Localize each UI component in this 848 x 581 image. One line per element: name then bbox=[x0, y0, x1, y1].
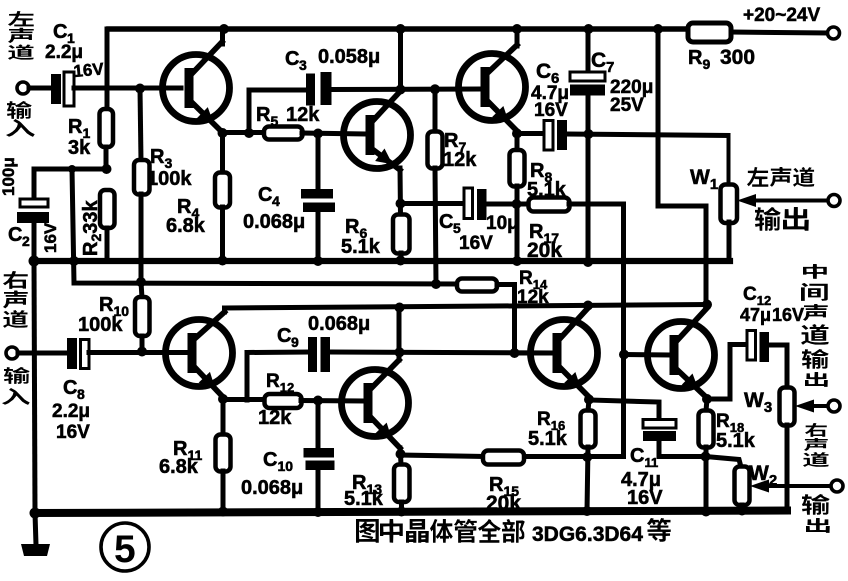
node label: left channel output bbox=[747, 167, 814, 231]
svg-text:8: 8 bbox=[77, 386, 85, 402]
svg-text:16V: 16V bbox=[41, 222, 60, 253]
node label: right channel input (bottom-left) bbox=[2, 271, 30, 405]
ground symbol bbox=[21, 513, 50, 556]
resistor R13 5.1k bbox=[344, 454, 410, 512]
svg-text:0.068μ: 0.068μ bbox=[243, 211, 305, 233]
capacitor C9 0.068u bbox=[247, 313, 553, 400]
svg-text:2.2μ: 2.2μ bbox=[45, 42, 83, 63]
svg-text:0.068μ: 0.068μ bbox=[308, 313, 370, 335]
node Q7 emitter junction bbox=[584, 395, 594, 405]
node left channel output terminal bbox=[828, 195, 840, 207]
resistor R5 12k bbox=[256, 104, 364, 140]
node left channel input terminal bbox=[17, 82, 29, 94]
node label: right channel output bbox=[802, 423, 830, 533]
svg-text:10μ: 10μ bbox=[486, 213, 519, 234]
wire feedback/W2 link bbox=[706, 457, 742, 468]
wire input to C1 bbox=[29, 86, 51, 91]
svg-text:16V: 16V bbox=[534, 100, 568, 121]
svg-text:3: 3 bbox=[299, 57, 307, 73]
resistor R16 5.1k bbox=[528, 400, 596, 512]
node middle output terminal W3 bbox=[828, 400, 840, 412]
figure number 5 bbox=[101, 523, 149, 571]
wire +V feed down to bottom channel rail bbox=[658, 29, 706, 304]
svg-text:0.058μ: 0.058μ bbox=[318, 46, 380, 68]
node Q3 emitter junction bbox=[512, 129, 522, 139]
capacitor C1 2.2u 16V bbox=[45, 21, 105, 106]
svg-text:C: C bbox=[591, 49, 606, 72]
node ground rail (upper) bbox=[29, 256, 731, 268]
svg-text:5: 5 bbox=[114, 528, 136, 571]
svg-text:16V: 16V bbox=[73, 59, 105, 81]
svg-text:6.8k: 6.8k bbox=[159, 456, 199, 478]
wire Q1 emitter to R5 and Q2 base bbox=[223, 128, 265, 138]
capacitor C2 100u 16V bbox=[0, 157, 112, 261]
wire Q2 collector to +V rail bbox=[398, 29, 403, 91]
power terminal +20~24V bbox=[743, 5, 840, 39]
svg-text:R233k: R233k bbox=[80, 200, 104, 256]
svg-text:5.1k: 5.1k bbox=[527, 179, 567, 201]
resistor R12 12k bbox=[223, 371, 363, 429]
svg-text:4: 4 bbox=[272, 193, 280, 209]
svg-text:12k: 12k bbox=[286, 104, 320, 126]
capacitor C3 0.058u (Q1 emitter to Q2 collector) bbox=[249, 46, 480, 133]
wire Q6 collector to rail3 bbox=[397, 308, 402, 360]
svg-text:100k: 100k bbox=[147, 168, 192, 190]
svg-text:2.2μ: 2.2μ bbox=[52, 401, 90, 422]
svg-text:C: C bbox=[258, 184, 272, 206]
transistor Q5 bbox=[166, 308, 233, 397]
node label: left channel input (top-left) bbox=[6, 11, 35, 137]
transistor Q1 bbox=[163, 29, 230, 132]
resistor R2 33k bbox=[80, 190, 115, 261]
potentiometer W2 bbox=[735, 462, 832, 511]
node junction dots on top rail bbox=[219, 24, 663, 34]
svg-text:16V: 16V bbox=[56, 422, 90, 443]
svg-text:5.1k: 5.1k bbox=[344, 488, 384, 510]
svg-text:2: 2 bbox=[22, 233, 30, 249]
capacitor C11 4.7u 16V bbox=[589, 400, 706, 509]
node +V top power rail bbox=[109, 29, 828, 33]
svg-text:C: C bbox=[285, 48, 299, 70]
svg-text:100μ: 100μ bbox=[0, 157, 18, 196]
capacitor C6 4.7u 16V bbox=[517, 60, 728, 150]
node right channel input terminal bbox=[6, 347, 18, 359]
wire C8 to Q5 base bbox=[89, 347, 187, 357]
transistor Q7 bbox=[531, 308, 598, 397]
svg-text:12k: 12k bbox=[258, 407, 292, 429]
resistor R17 20k feedback bbox=[524, 198, 624, 457]
svg-text:16V: 16V bbox=[772, 305, 804, 325]
node Q8 emitter junction bbox=[702, 394, 712, 404]
node ground rail (bottom) bbox=[30, 506, 788, 519]
potentiometer W1 bbox=[690, 136, 828, 262]
wire input to C8 bbox=[18, 351, 67, 356]
transistor Q2 bbox=[344, 91, 411, 170]
capacitor C4 0.068u (Q2 base to gnd) bbox=[243, 134, 335, 262]
wire C1 to Q1 base with junction bbox=[74, 84, 181, 94]
svg-text:C: C bbox=[8, 224, 22, 246]
transistor Q6 bbox=[342, 360, 409, 448]
node Q5 emitter junction bbox=[218, 394, 228, 404]
capacitor C8 2.2u 16V bbox=[52, 338, 90, 443]
svg-text:C: C bbox=[536, 60, 551, 83]
node Q6 emitter junction bbox=[396, 448, 406, 459]
wire bias rail 2 (R3/R10/R14) bbox=[72, 169, 457, 289]
potentiometer W3 bbox=[744, 388, 828, 511]
svg-text:12k: 12k bbox=[443, 149, 477, 171]
capacitor C12 47u 16V bbox=[707, 284, 804, 399]
wire ground drop from upper rail to ground bbox=[34, 261, 35, 513]
svg-text:0.068μ: 0.068μ bbox=[241, 477, 303, 499]
resistor R4 6.8k (Q1 emitter to gnd) bbox=[166, 128, 230, 261]
resistor R10 100k bbox=[78, 282, 150, 352]
resistor R15 20k bbox=[401, 451, 525, 516]
svg-text:9: 9 bbox=[291, 334, 299, 350]
transistor Q3 bbox=[459, 29, 526, 131]
resistor R8 5.1k bbox=[510, 134, 567, 262]
capacitor C10 0.068u bbox=[241, 401, 335, 513]
node label: middle channel output bbox=[801, 264, 829, 387]
node rail 3 collectors bottom channel bbox=[225, 300, 713, 313]
svg-text:3DG6.3D64: 3DG6.3D64 bbox=[532, 523, 643, 546]
svg-text:5.1k: 5.1k bbox=[341, 236, 381, 258]
resistor R6 5.1k (Q2 emitter) bbox=[341, 168, 410, 261]
note: transistor type text bbox=[356, 518, 671, 546]
svg-text:5.1k: 5.1k bbox=[716, 430, 756, 452]
svg-text:C: C bbox=[53, 21, 67, 43]
svg-text:47μ: 47μ bbox=[740, 305, 771, 325]
resistor R7 12k bbox=[428, 90, 478, 285]
svg-text:C: C bbox=[277, 325, 291, 347]
svg-text:300: 300 bbox=[720, 46, 755, 69]
svg-text:C: C bbox=[63, 377, 77, 399]
capacitor C5 10u 16V bbox=[401, 188, 530, 254]
resistor R18 5.1k bbox=[699, 399, 756, 512]
svg-text:3k: 3k bbox=[68, 137, 91, 159]
resistor R9 300 bbox=[688, 23, 755, 72]
svg-text:16V: 16V bbox=[459, 233, 493, 254]
svg-text:7: 7 bbox=[606, 59, 614, 76]
capacitor C7 220u 25V bbox=[570, 29, 653, 262]
svg-text:+20~24V: +20~24V bbox=[743, 5, 820, 26]
svg-text:C: C bbox=[439, 211, 453, 233]
svg-text:100k: 100k bbox=[78, 314, 123, 336]
resistor R11 6.8k bbox=[159, 399, 231, 512]
svg-text:6.8k: 6.8k bbox=[166, 215, 206, 237]
resistor R1 3k (from +V rail) bbox=[68, 29, 113, 169]
resistor R14 12k bbox=[457, 268, 553, 353]
transistor Q8 bbox=[648, 308, 715, 398]
node right channel output terminal bbox=[831, 480, 843, 492]
svg-text:5.1k: 5.1k bbox=[528, 428, 568, 450]
resistor R3 100k (base bias) bbox=[134, 89, 192, 283]
wire Q8 base from feedback node bbox=[619, 350, 668, 360]
svg-text:16V: 16V bbox=[627, 487, 663, 509]
svg-text:25V: 25V bbox=[610, 95, 644, 116]
